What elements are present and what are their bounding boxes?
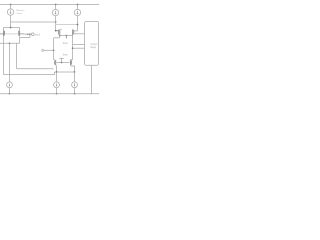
current sink B2 xyxy=(54,82,60,88)
wire: jog across to bottom-left node xyxy=(55,71,57,73)
wire: positive supply rail V+ xyxy=(0,4,99,6)
wire: drop from input rail corner to y68.8 bus xyxy=(16,43,18,69)
terminal: open circle on y50.3 stub xyxy=(42,49,44,51)
transistor Q2 (left mirror, right device) xyxy=(19,30,25,36)
wire: left mirror top link y27.5 xyxy=(4,27,20,29)
wire: lower input rail y43.3 xyxy=(0,42,20,44)
wire: negative supply rail V- xyxy=(0,93,99,95)
svg-text:Ibias: Ibias xyxy=(63,43,69,45)
transistor Q5 (bottom mirror left) xyxy=(55,60,56,65)
wire: Q5 source to bottom node xyxy=(55,65,58,72)
svg-text:stage: stage xyxy=(90,46,97,49)
node: Q3 gate joins I1 stem xyxy=(55,30,57,32)
svg-text:Input: Input xyxy=(35,33,40,36)
wire: Q3 drain lead xyxy=(60,28,62,30)
terminal: inverting input open circle xyxy=(32,33,35,36)
node: bottom link left xyxy=(56,71,58,73)
wire: Q4 drain corner from I2 stem xyxy=(73,30,78,32)
node A: input node dot xyxy=(29,33,31,35)
wire: jog across to Q2 source line xyxy=(20,37,30,39)
transistor Q6 (bottom mirror right) xyxy=(71,60,72,65)
wire: V+ rail to current source I1 xyxy=(55,5,57,10)
current source I_ref (reference current) xyxy=(7,9,13,15)
wire: bridge y24.5 from I1 stem to I2 stem xyxy=(56,24,78,26)
svg-text:Current: Current xyxy=(16,12,22,15)
svg-text:Reference: Reference xyxy=(16,10,24,12)
node: I_ref joins mirror top link xyxy=(10,27,12,29)
node: bridge joins I2 stem xyxy=(77,24,79,26)
arrowhead on tail stub xyxy=(66,37,68,39)
wire: box ground drop xyxy=(91,65,93,93)
wire: joined sources line y35.5 xyxy=(60,35,73,37)
wire: Q4 source into node line x72.6 xyxy=(72,35,74,60)
wire: V+ rail to current source I2 xyxy=(77,5,79,10)
node: B2 on negative rail xyxy=(56,93,58,95)
wire: Q2 lead toward input node with emitter arrow xyxy=(25,33,30,35)
transistor Q4 (diff pair right) xyxy=(73,29,74,35)
node: tail drop joins input rail xyxy=(9,42,11,44)
wire: bias line y22 from I_ref stem to I1 stem xyxy=(11,21,56,23)
wire: I2 down to Q4 drain corner xyxy=(77,16,79,31)
node: B1 on negative rail xyxy=(9,93,11,95)
wire: tail current stub with arrow xyxy=(65,36,67,38)
node on V+ rail above I2 xyxy=(77,4,79,6)
wire: box input line y44.5 xyxy=(73,44,85,46)
wire: Q6 source to bottom node xyxy=(71,65,75,72)
node: tail stub on sources line xyxy=(66,35,68,37)
node: sources line tap on Q3 source xyxy=(59,35,61,37)
arrowhead on Q2 lead xyxy=(27,33,29,35)
wire: B1 to negative rail xyxy=(9,88,11,94)
wire: box input line y48.2 xyxy=(73,47,85,49)
current source I1 xyxy=(52,9,58,15)
wire: corner down to Q1 drain xyxy=(3,28,5,31)
node on V+ rail above I_ref xyxy=(10,4,12,6)
wire: Q1 source long drop through rail to y74.6 bus xyxy=(3,36,5,74)
transistor Q1 (left mirror, left device) xyxy=(0,30,4,36)
node: bottom link right xyxy=(74,71,76,73)
wire: y74.6 bus to bottom mirror xyxy=(4,74,55,76)
wire: y68.8 bus to bottom mirror gate xyxy=(17,68,54,70)
node: tap on x72.6 at y48.2 xyxy=(72,47,74,49)
svg-text:Ibias: Ibias xyxy=(63,55,69,57)
node: bus tap at y50.3 xyxy=(53,49,55,51)
wire: source corner to vertical bus xyxy=(54,37,60,39)
node: bias line joins I1 stem xyxy=(55,21,57,23)
wire: Q3 source down and left to bus xyxy=(59,35,61,38)
wire: gate riser xyxy=(61,58,63,62)
wire: input node jog down xyxy=(29,34,31,37)
wire: tee bar atop gate riser xyxy=(59,57,63,59)
wire: x72.6 corner into Q6 drain xyxy=(71,59,73,61)
wire: I_ref output down to mirror node xyxy=(10,15,12,27)
wire: down to current sink B2 xyxy=(56,72,58,82)
wire: vertical bus x53.6 xyxy=(53,38,55,60)
wire: faint gate tie between Q1 and Q2 xyxy=(5,33,18,35)
wire: V+ rail to reference current source xyxy=(10,5,12,9)
node: B3 on negative rail xyxy=(74,93,76,95)
current sink B1 xyxy=(7,82,13,88)
wire: drop from input rail to bias sink B1 xyxy=(9,43,11,82)
wire: down to current sink B3 xyxy=(74,72,76,82)
node: gate line center tap xyxy=(61,62,63,64)
wire: I1 down to Q3 gate node xyxy=(55,16,57,31)
wire: bottom mirror gate line y62.5 xyxy=(57,62,70,64)
wire: input node to terminal xyxy=(30,33,32,35)
wire: Q2 source down to input rail xyxy=(19,36,21,43)
transistor Q3 (diff pair left) xyxy=(56,29,60,35)
current sink B3 xyxy=(72,82,78,88)
wire: B3 to negative rail xyxy=(74,88,76,94)
wire: bus corner into Q5 drain xyxy=(54,59,55,61)
wire: B2 to negative rail xyxy=(56,88,58,94)
wire: bottom link y72 xyxy=(57,71,75,73)
node on V+ rail above I1 xyxy=(55,4,57,6)
wire: corner down to Q2 drain xyxy=(19,28,21,31)
block U1: output gain stage box xyxy=(85,21,99,65)
current source I2 xyxy=(74,9,80,15)
wire: stub y50.3 to open terminal xyxy=(44,49,54,51)
wire: Q4 gate lead to gain stage box xyxy=(74,33,85,35)
wire: jog up from y74.6 bus xyxy=(54,72,56,75)
